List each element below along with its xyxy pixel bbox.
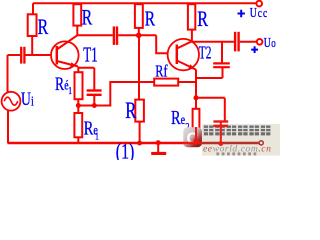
svg-text:o: o: [271, 37, 276, 51]
svg-text:Rf: Rf: [155, 63, 167, 81]
svg-text:T2: T2: [199, 44, 212, 63]
svg-text:cc: cc: [258, 7, 268, 21]
svg-text:R: R: [55, 73, 65, 95]
svg-text:R: R: [125, 99, 137, 124]
svg-text:U: U: [250, 6, 257, 21]
svg-text:R: R: [171, 106, 181, 129]
svg-text:U: U: [21, 88, 31, 110]
svg-text:R: R: [82, 6, 93, 30]
svg-text:eeworld.com.cn: eeworld.com.cn: [203, 143, 271, 154]
svg-text:R: R: [38, 16, 49, 40]
svg-text:T1: T1: [83, 42, 97, 66]
svg-text:e: e: [181, 111, 185, 127]
svg-text:R: R: [197, 8, 209, 32]
svg-text:1: 1: [95, 130, 99, 143]
svg-text:(1): (1): [116, 140, 134, 160]
svg-text:U: U: [264, 36, 271, 51]
svg-text:1: 1: [68, 85, 72, 96]
svg-text:R: R: [145, 7, 156, 31]
svg-text:R: R: [84, 116, 94, 139]
